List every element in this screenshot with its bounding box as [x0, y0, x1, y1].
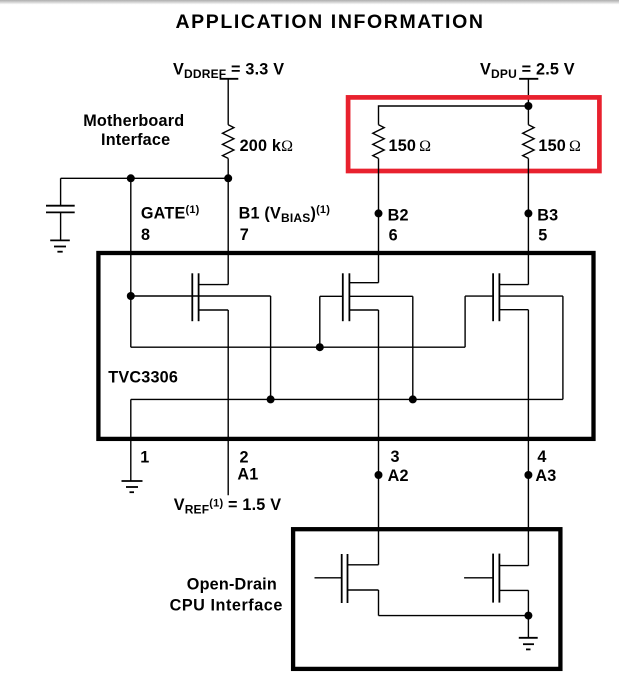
junction dot gate node [127, 292, 135, 300]
wire: cap top lead [60, 178, 62, 205]
transistor Q2: gate plate [342, 273, 344, 321]
svg-text:CPU Interface: CPU Interface [170, 596, 283, 614]
wire: Q3 body down to ground bus right end [562, 296, 564, 399]
svg-text:150Ω: 150Ω [538, 137, 581, 155]
transistor Q4: channel [347, 554, 349, 603]
resistor R3 150 Ohm (right) [523, 125, 534, 159]
svg-text:5: 5 [538, 227, 547, 245]
svg-text:4: 4 [537, 448, 546, 466]
power rail VDPU bar [519, 78, 538, 80]
wire: Q4 source stub [348, 589, 379, 591]
svg-text:A2: A2 [388, 467, 409, 485]
wire: GATE vertical from top bus to gate bus [130, 178, 132, 347]
wire: node to left 150 ohm resistor [379, 106, 529, 125]
wire: Q5 gate lead [464, 577, 493, 579]
junction dot B3 pin 5 [524, 209, 532, 217]
svg-text:3: 3 [391, 448, 400, 466]
junction dot at GATE column [127, 174, 135, 182]
junction dot gate bus / Q2 [316, 343, 324, 351]
wire: Q3 gate lead [465, 295, 493, 297]
junction dot ground bus / Q1 body [267, 395, 275, 403]
wire: Q4 gate lead [315, 577, 342, 579]
wire: Q2 gate lead [320, 295, 343, 297]
wire: R2 bottom to T2 drain (pin 6) [378, 158, 380, 282]
svg-text:TVC3306: TVC3306 [108, 368, 178, 386]
wire: Q2 source stub [349, 309, 378, 311]
wire: Q2 source down to pin 3 / A2 and T4 drain [378, 310, 380, 565]
svg-text:Interface: Interface [101, 131, 170, 149]
svg-text:B3: B3 [537, 206, 558, 224]
junction dot bottom ground node [524, 612, 532, 620]
wire: Q2 drain stub [349, 282, 378, 284]
resistor R1 200 kOhm [223, 125, 234, 159]
svg-text:1: 1 [140, 448, 149, 466]
svg-text:2: 2 [240, 448, 249, 466]
svg-text:150Ω: 150Ω [389, 137, 432, 155]
wire: Q5 source stub [499, 589, 528, 591]
ground symbol (capacitor) [50, 239, 70, 241]
wire: horizontal top-left bus y=178 [61, 177, 229, 179]
wire: Q4 drain stub [348, 564, 379, 566]
resistor R2 150 Ohm (left) [373, 125, 384, 159]
svg-text:VREF(1) = 1.5 V: VREF(1) = 1.5 V [174, 496, 282, 517]
svg-text:APPLICATION INFORMATION: APPLICATION INFORMATION [175, 11, 484, 33]
svg-text:B2: B2 [388, 206, 409, 224]
wire: Q3 drain stub [499, 284, 528, 286]
svg-text:A3: A3 [535, 467, 556, 485]
transistor Q3: channel [498, 273, 500, 321]
transistor Q3: gate plate [492, 273, 494, 321]
wire: Q1 source down to pin 2 / A1 [227, 310, 229, 495]
transistor Q2: channel [348, 273, 350, 321]
capacitor C1 [46, 205, 75, 207]
wire: Q4 source down to gnd bus [378, 590, 380, 616]
svg-text:6: 6 [389, 227, 398, 245]
wire: Q3 gate lead down to gate bus [464, 296, 466, 347]
junction dot A3 [524, 471, 532, 479]
wire: Q5 source down to ground [527, 590, 529, 637]
svg-text:7: 7 [240, 226, 249, 244]
transistor Q1: channel [198, 273, 200, 321]
junction dot VDPU node [524, 102, 532, 110]
red highlight box [348, 97, 599, 171]
transistor Q5: gate plate [492, 554, 494, 603]
svg-text:Open-Drain: Open-Drain [187, 575, 277, 593]
junction dot A2 [375, 471, 383, 479]
wire: Q2 gate lead down to gate bus [319, 296, 321, 347]
wire: R1 bottom through node to pin 7 / T1 drain [227, 158, 229, 284]
wire: Q3 source stub [499, 309, 528, 311]
wire: VDDREF bar to R1 top [227, 79, 229, 125]
wire: ground bus [131, 398, 563, 400]
svg-text:A1: A1 [237, 465, 258, 483]
ground symbol (CPU box) [519, 637, 538, 639]
wire: Q3 body line [499, 295, 563, 297]
junction dot at B1 column [224, 174, 232, 182]
svg-text:GATE(1): GATE(1) [141, 204, 200, 222]
ground symbol (pin 1) [122, 480, 143, 482]
transistor Q1: gate plate [191, 273, 193, 321]
wire: Q5 drain stub [499, 565, 528, 567]
wire: Q1 drain stub [199, 284, 229, 286]
box: open-drain CPU interface [293, 529, 560, 669]
svg-text:Motherboard: Motherboard [83, 112, 184, 130]
svg-text:8: 8 [141, 226, 150, 244]
wire: bottom ground bus [379, 615, 529, 617]
svg-text:200 kΩ: 200 kΩ [240, 137, 294, 155]
wire: Q1 source stub [199, 309, 229, 311]
wire: Q1 body down to ground bus [270, 296, 272, 399]
wire: cap bottom lead [60, 212, 62, 240]
wire: gate bus [131, 346, 465, 348]
svg-text:B1 (VBIAS)(1): B1 (VBIAS)(1) [239, 204, 331, 225]
wire: Q2 body line [349, 295, 412, 297]
junction dot ground bus / Q2 body [409, 395, 417, 403]
transistor Q5: channel [498, 554, 500, 603]
IC box TVC3306 [98, 253, 593, 439]
wire: ground bus down to pin 1 [130, 399, 132, 480]
wire: gate lead + Q1 body line y=296 [131, 295, 271, 297]
power rail VDDREF bar [220, 78, 239, 80]
junction dot B2 pin 6 [375, 209, 383, 217]
transistor Q4: gate plate [341, 554, 343, 603]
wire: R3 bottom to T3 drain (pin 5) [527, 158, 529, 284]
wire: Q3 source down to pin 4 / A3 and T5 drain [527, 310, 529, 566]
wire: VDPU bar down to node [527, 79, 529, 125]
wire: Q2 body down to ground bus [412, 296, 414, 399]
